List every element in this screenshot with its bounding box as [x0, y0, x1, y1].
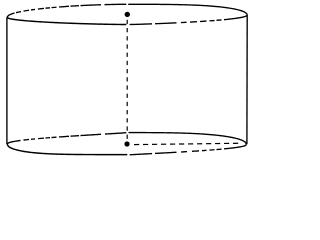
top ellipse front arc dash 5: [200, 20, 207, 22]
axis dash 4: [126, 44, 128, 48]
radius dash 9: [206, 143, 211, 145]
top ellipse front arc dash 8: [224, 15, 247, 19]
radius dash 8: [197, 143, 202, 145]
radius dash 3: [152, 143, 157, 145]
top ellipse front arc dash 3: [181, 21, 187, 23]
bottom ellipse back arc dash 6: [52, 136, 57, 138]
radius dash 11: [224, 142, 229, 144]
top ellipse back arc dash 6: [46, 7, 51, 9]
top center dot: [125, 12, 130, 17]
bottom ellipse front arc dash 7: [217, 148, 222, 150]
bottom ellipse back arc dash 3: [31, 138, 35, 140]
radius dash 7: [188, 143, 193, 145]
bottom ellipse back arc dash 5: [46, 137, 51, 139]
top ellipse back arc dash 4: [31, 8, 35, 11]
radius dash 5: [170, 143, 175, 145]
axis dash 13: [126, 118, 128, 122]
bottom ellipse back arc dash 2: [24, 138, 30, 141]
radius dash 2: [143, 143, 148, 145]
axis dash 3: [126, 36, 128, 40]
axis dash 7: [126, 69, 128, 73]
bottom ellipse back arc dash 7: [59, 135, 69, 138]
axis dash 6: [126, 61, 128, 65]
top ellipse back arc dash 1: [7, 13, 15, 17]
bottom ellipse back arc dash 8: [71, 135, 80, 138]
bottom ellipse back arc dash 10: [105, 133, 126, 134]
top ellipse back arc dash 3: [24, 9, 30, 12]
radius dash 4: [161, 143, 166, 145]
radius dash 1: [134, 144, 139, 146]
top ellipse front arc dash 2: [155, 22, 177, 25]
top ellipse front arc dash 7: [217, 19, 222, 21]
axis dash 8: [126, 77, 128, 81]
top ellipse back arc dash 2: [16, 12, 21, 13]
bottom ellipse back arc dash 1: [7, 140, 21, 144]
cylinder diagram: [0, 0, 254, 160]
bottom ellipse back arc dash 9: [81, 134, 102, 135]
axis dash 11: [126, 102, 128, 106]
top ellipse front arc left solid: [7, 17, 126, 24]
bottom ellipse front arc dash 8: [224, 145, 247, 149]
axis dash 10: [126, 94, 128, 98]
top ellipse back arc dash 10: [81, 4, 102, 7]
top ellipse back arc dash 8: [59, 5, 69, 8]
axis dash 12: [126, 110, 128, 114]
bottom ellipse back arc dash 4: [38, 137, 44, 140]
axis dash 1: [126, 20, 128, 24]
bottom ellipse front arc left solid: [7, 144, 127, 155]
radius dash 6: [179, 143, 184, 145]
axis dash 2: [126, 28, 128, 32]
bottom ellipse front arc dash 2: [155, 152, 177, 153]
top ellipse back arc dash 9: [71, 5, 80, 8]
radius dash 12: [233, 142, 238, 144]
top ellipse back arc dash 7: [52, 6, 57, 8]
radius dash 10: [215, 143, 220, 145]
axis dash 14: [126, 126, 128, 130]
top ellipse back arc dash 5: [38, 7, 44, 10]
bottom ellipse front arc dash 1: [130, 154, 152, 155]
top ellipse front arc dash 1: [130, 23, 152, 26]
top ellipse front arc dash 4: [190, 21, 197, 23]
top ellipse front arc dash 6: [210, 19, 215, 21]
top ellipse back arc right solid: [128, 4, 247, 15]
bottom ellipse front arc dash 5: [202, 149, 207, 151]
axis dash 5: [126, 53, 128, 57]
bottom ellipse front arc dash 4: [192, 150, 199, 152]
bottom ellipse front arc dash 3: [181, 151, 187, 153]
left side: [6, 17, 8, 144]
axis dash 15: [126, 135, 128, 139]
top ellipse back arc dash 11: [105, 3, 127, 5]
axis dash 9: [126, 85, 128, 89]
bottom center dot: [124, 141, 129, 146]
bottom ellipse front arc dash 6: [210, 149, 215, 151]
right side: [246, 15, 248, 144]
bottom ellipse back arc right solid: [129, 133, 247, 145]
